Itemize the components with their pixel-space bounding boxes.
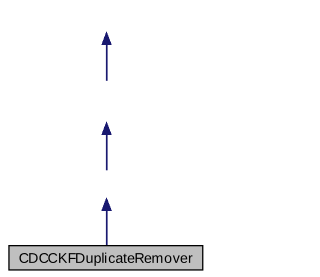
inheritance arrow A2 stem (wire)	[106, 135, 108, 171]
class name label text "CDCCKFDuplicateRemover"	[19, 253, 192, 266]
inheritance arrow A3 arrowhead (bottom)	[101, 197, 112, 211]
class node box CDCCKFDuplicateRemover	[9, 246, 203, 270]
inheritance arrow A3 stem (wire into node)	[106, 210, 108, 245]
inheritance arrow A1 arrowhead (topmost)	[101, 31, 112, 45]
inheritance arrow A1 stem (wire)	[106, 45, 108, 81]
inheritance arrow A2 arrowhead (middle)	[101, 121, 112, 135]
